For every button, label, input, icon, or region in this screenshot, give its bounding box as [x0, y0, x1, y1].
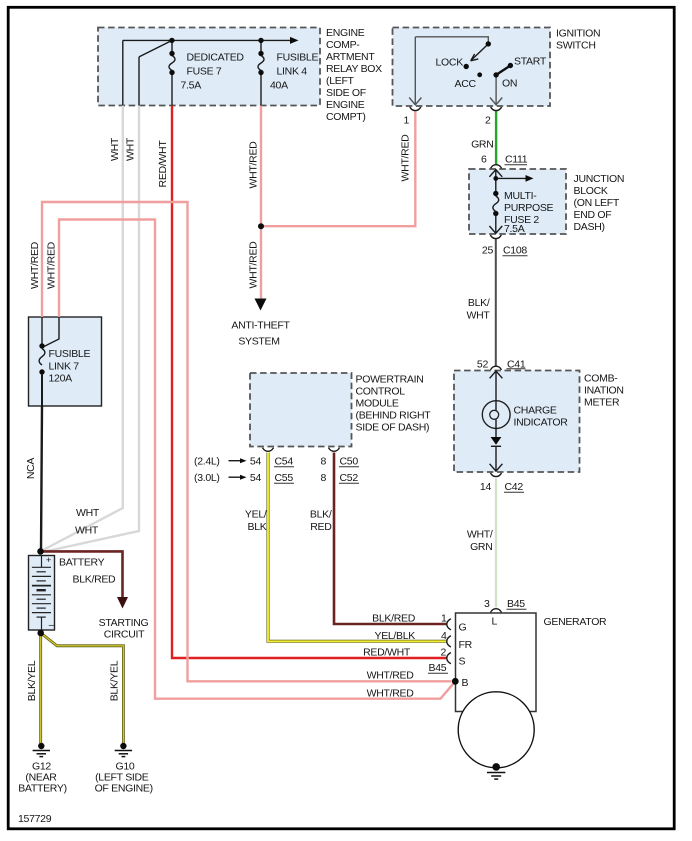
- svg-text:FUSE 7: FUSE 7: [187, 66, 222, 78]
- svg-text:BLK: BLK: [248, 521, 267, 533]
- svg-text:GRN: GRN: [471, 139, 493, 151]
- svg-text:BLK/RED: BLK/RED: [372, 613, 416, 625]
- svg-text:COMB-: COMB-: [584, 373, 618, 385]
- svg-text:WHT: WHT: [76, 507, 100, 519]
- svg-text:C55: C55: [275, 472, 294, 484]
- svg-text:B: B: [462, 677, 469, 689]
- svg-text:INATION: INATION: [584, 385, 624, 397]
- svg-text:BLK/: BLK/: [310, 509, 332, 521]
- svg-text:C108: C108: [503, 245, 527, 257]
- svg-text:OF ENGINE): OF ENGINE): [95, 783, 153, 795]
- svg-text:S: S: [459, 656, 466, 668]
- svg-text:(LEFT: (LEFT: [326, 75, 355, 87]
- svg-text:YEL/: YEL/: [245, 509, 267, 521]
- svg-text:WHT: WHT: [125, 137, 137, 161]
- svg-text:IGNITION: IGNITION: [556, 28, 600, 40]
- svg-text:2: 2: [440, 647, 446, 659]
- svg-text:COMPT): COMPT): [326, 111, 366, 123]
- svg-text:SIDE OF DASH): SIDE OF DASH): [356, 422, 430, 434]
- svg-text:(BEHIND RIGHT: (BEHIND RIGHT: [356, 410, 432, 422]
- svg-text:BLK/YEL: BLK/YEL: [108, 660, 120, 701]
- svg-text:WHT/RED: WHT/RED: [247, 241, 259, 289]
- svg-text:G: G: [459, 622, 467, 634]
- svg-text:WHT/RED: WHT/RED: [29, 241, 41, 289]
- svg-text:SYSTEM: SYSTEM: [238, 336, 279, 348]
- svg-text:7.5A: 7.5A: [504, 223, 525, 235]
- svg-text:C54: C54: [275, 456, 294, 468]
- svg-text:GENERATOR: GENERATOR: [544, 616, 608, 628]
- svg-text:WHT/RED: WHT/RED: [247, 141, 259, 189]
- svg-text:WHT/RED: WHT/RED: [367, 688, 415, 700]
- svg-text:BLK/RED: BLK/RED: [73, 574, 117, 586]
- svg-text:8: 8: [320, 472, 326, 484]
- svg-text:54: 54: [250, 456, 262, 468]
- svg-text:40A: 40A: [270, 80, 288, 92]
- svg-text:120A: 120A: [49, 373, 73, 385]
- svg-text:WHT: WHT: [109, 137, 121, 161]
- svg-text:C52: C52: [340, 472, 359, 484]
- svg-text:1: 1: [441, 613, 447, 625]
- svg-text:RELAY BOX: RELAY BOX: [326, 63, 382, 75]
- svg-text:NCA: NCA: [25, 458, 37, 480]
- svg-text:RED: RED: [310, 521, 332, 533]
- svg-text:PURPOSE: PURPOSE: [504, 202, 554, 214]
- svg-text:6: 6: [481, 154, 487, 166]
- svg-text:C111: C111: [505, 154, 528, 166]
- svg-text:–: –: [49, 620, 55, 631]
- svg-text:BLOCK: BLOCK: [574, 185, 608, 197]
- svg-text:LINK 7: LINK 7: [49, 361, 80, 373]
- svg-text:B45: B45: [507, 598, 525, 610]
- svg-text:INDICATOR: INDICATOR: [514, 417, 569, 429]
- svg-text:RED/WHT: RED/WHT: [157, 140, 169, 188]
- svg-text:B45: B45: [429, 662, 447, 674]
- svg-text:BLK/YEL: BLK/YEL: [26, 660, 38, 701]
- svg-text:CIRCUIT: CIRCUIT: [104, 629, 145, 641]
- svg-text:MULTI-: MULTI-: [504, 190, 537, 202]
- svg-text:WHT/RED: WHT/RED: [367, 670, 415, 682]
- svg-text:CHARGE: CHARGE: [514, 405, 557, 417]
- svg-text:START: START: [514, 56, 547, 68]
- svg-text:L: L: [492, 616, 498, 628]
- svg-text:FUSIBLE: FUSIBLE: [49, 348, 91, 360]
- svg-text:COMP-: COMP-: [326, 39, 360, 51]
- svg-text:WHT: WHT: [466, 310, 490, 322]
- svg-text:WHT/RED: WHT/RED: [400, 134, 412, 182]
- svg-text:DEDICATED: DEDICATED: [187, 52, 245, 64]
- svg-text:1: 1: [403, 115, 409, 127]
- svg-text:3: 3: [484, 598, 490, 610]
- svg-text:(3.0L): (3.0L): [194, 472, 220, 484]
- svg-text:(2.4L): (2.4L): [194, 456, 220, 468]
- svg-text:LINK 4: LINK 4: [277, 66, 308, 78]
- svg-text:BLK/: BLK/: [468, 297, 490, 309]
- svg-text:C42: C42: [505, 481, 524, 493]
- svg-text:METER: METER: [584, 397, 620, 409]
- svg-text:WHT/: WHT/: [467, 529, 493, 541]
- svg-text:JUNCTION: JUNCTION: [574, 173, 625, 185]
- svg-text:WHT: WHT: [75, 525, 99, 537]
- svg-text:ENGINE: ENGINE: [326, 27, 365, 39]
- svg-text:2: 2: [485, 115, 491, 127]
- svg-text:+: +: [46, 555, 51, 565]
- svg-text:ANTI-THEFT: ANTI-THEFT: [231, 320, 290, 332]
- svg-text:52: 52: [477, 359, 489, 371]
- svg-text:LOCK: LOCK: [436, 57, 464, 69]
- svg-text:FR: FR: [459, 639, 473, 651]
- svg-text:WHT/RED: WHT/RED: [45, 241, 57, 289]
- svg-text:BATTERY: BATTERY: [59, 557, 105, 569]
- svg-text:54: 54: [250, 472, 262, 484]
- svg-text:END OF: END OF: [574, 209, 612, 221]
- svg-text:BATTERY): BATTERY): [18, 783, 67, 795]
- svg-text:C50: C50: [340, 456, 359, 468]
- svg-text:8: 8: [320, 456, 326, 468]
- svg-text:DASH): DASH): [574, 221, 605, 233]
- svg-text:GRN: GRN: [470, 541, 492, 553]
- svg-text:FUSIBLE: FUSIBLE: [277, 52, 319, 64]
- svg-text:ACC: ACC: [455, 78, 477, 90]
- svg-text:MODULE: MODULE: [356, 398, 399, 410]
- svg-text:YEL/BLK: YEL/BLK: [374, 630, 415, 642]
- svg-text:ARTMENT: ARTMENT: [326, 51, 375, 63]
- svg-text:ENGINE: ENGINE: [326, 99, 365, 111]
- svg-text:RED/WHT: RED/WHT: [363, 647, 411, 659]
- svg-text:SIDE OF: SIDE OF: [326, 87, 366, 99]
- svg-text:157729: 157729: [18, 813, 52, 825]
- svg-text:25: 25: [482, 245, 494, 257]
- svg-text:SWITCH: SWITCH: [556, 40, 596, 52]
- svg-text:POWERTRAIN: POWERTRAIN: [356, 374, 424, 386]
- svg-text:CONTROL: CONTROL: [356, 386, 406, 398]
- svg-text:(ON LEFT: (ON LEFT: [574, 197, 620, 209]
- svg-text:7.5A: 7.5A: [181, 80, 202, 92]
- svg-text:4: 4: [441, 630, 447, 642]
- svg-text:STARTING: STARTING: [99, 617, 149, 629]
- svg-text:14: 14: [480, 481, 492, 493]
- svg-text:ON: ON: [502, 78, 517, 90]
